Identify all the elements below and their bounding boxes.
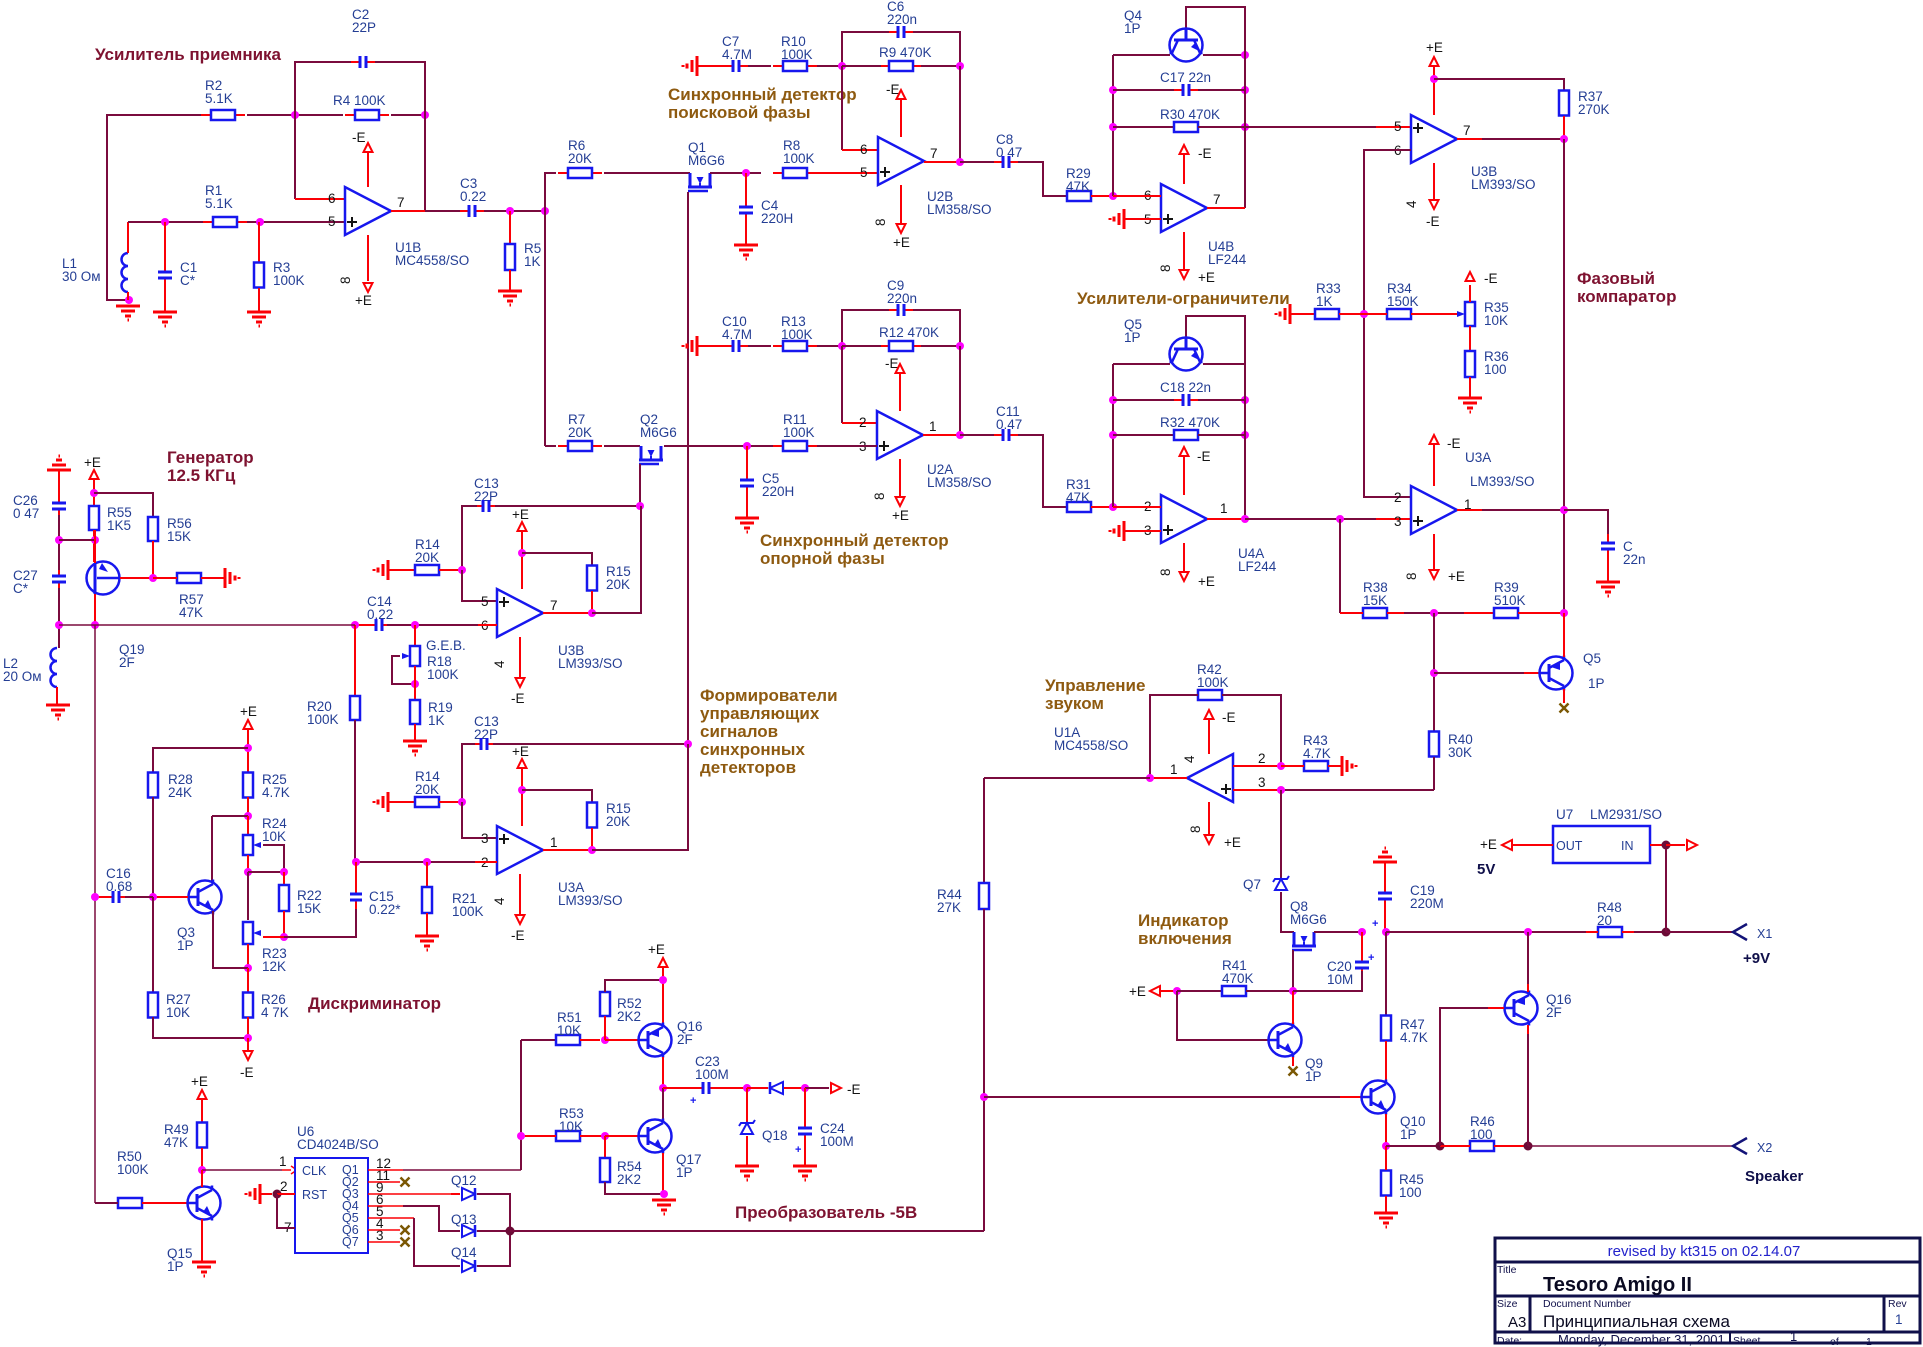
wire wiper node row — [284, 936, 356, 938]
wire R15u bottom — [591, 591, 593, 613]
svg-text:звуком: звуком — [1045, 694, 1104, 713]
wire R48 right a — [1622, 931, 1634, 933]
power +E R41 — [1150, 986, 1160, 996]
svg-text:of: of — [1830, 1336, 1839, 1347]
wire R50 to Q15 — [142, 1202, 188, 1204]
svg-text:2: 2 — [1258, 751, 1266, 766]
resistor R11 — [773, 441, 817, 451]
wire pin3 stub U4A — [1124, 530, 1161, 532]
svg-text:Усилители-ограничители: Усилители-ограничители — [1077, 289, 1290, 308]
wire Q17 base — [605, 1135, 638, 1137]
wire R14u right — [439, 569, 462, 571]
resistor R47 — [1381, 1016, 1391, 1041]
node R12 right — [956, 342, 964, 350]
node Q10e — [1382, 1142, 1390, 1150]
svg-text:Дискриминатор: Дискриминатор — [308, 994, 441, 1013]
wire to R56 — [94, 493, 153, 517]
potentiometer R35 — [1457, 302, 1475, 326]
resistor R49 — [197, 1123, 207, 1148]
capacitor C 22n — [1601, 534, 1615, 558]
svg-text:2: 2 — [280, 1179, 288, 1194]
wire C2 loop right — [371, 62, 425, 115]
node R14l — [458, 798, 466, 806]
power -E U3Bg — [516, 678, 525, 687]
svg-text:0.22: 0.22 — [460, 189, 486, 204]
svg-text:Date:: Date: — [1497, 1335, 1522, 1347]
wire +E stem U3Bg — [521, 531, 523, 589]
svg-text:100K: 100K — [783, 425, 815, 440]
svg-text:Rev: Rev — [1888, 1298, 1907, 1310]
svg-text:включения: включения — [1138, 929, 1232, 948]
capacitor C10 — [724, 340, 748, 352]
svg-text:10K: 10K — [559, 1119, 583, 1134]
svg-text:100K: 100K — [1197, 675, 1229, 690]
capacitor C17 — [1174, 84, 1198, 96]
wire RST to pin7 — [277, 1194, 295, 1228]
zener Q7 — [1273, 876, 1289, 890]
power +E U4B — [1180, 270, 1189, 279]
wire R45 gnd — [1385, 1196, 1387, 1213]
svg-text:опорной фазы: опорной фазы — [760, 549, 885, 568]
resistor R3 — [254, 263, 264, 288]
no-connect Q7 out — [401, 1238, 410, 1247]
wire pin6 drop — [294, 115, 296, 199]
power +E U3Bc — [1430, 57, 1439, 66]
wire R53 right — [580, 1135, 604, 1137]
wire Q5 collector loop — [1186, 316, 1245, 364]
svg-text:100K: 100K — [427, 667, 459, 682]
svg-text:100K: 100K — [781, 47, 813, 62]
resistor R51 — [556, 1035, 580, 1045]
wire pin3 row — [1281, 789, 1434, 791]
svg-text:4.7K: 4.7K — [262, 785, 290, 800]
svg-text:100K: 100K — [783, 151, 815, 166]
wire pin6 stub U4B — [1113, 195, 1161, 197]
svg-text:20K: 20K — [568, 151, 592, 166]
svg-text:Title: Title — [1497, 1264, 1517, 1276]
wire to -E arrow — [805, 1087, 829, 1089]
node Q2 gate — [636, 502, 644, 510]
svg-text:5: 5 — [1394, 119, 1402, 134]
svg-text:20K: 20K — [415, 550, 439, 565]
svg-text:Document Number: Document Number — [1543, 1298, 1632, 1310]
wire pin3 stub comp — [1376, 518, 1411, 520]
node R4/C2 right — [421, 111, 429, 119]
resistor R1 — [203, 217, 247, 227]
svg-text:24K: 24K — [168, 785, 192, 800]
wire RST stub — [277, 1193, 295, 1195]
node U7 IN — [1662, 841, 1671, 850]
wire R15l bottom — [591, 828, 593, 850]
svg-text:-E: -E — [847, 1082, 861, 1097]
power -E U4A — [1180, 447, 1189, 456]
wire gnd to C19 — [1384, 862, 1386, 890]
wire to R15u — [522, 553, 592, 565]
svg-text:+: + — [1372, 918, 1378, 930]
wire C gnd — [1607, 558, 1609, 582]
wire Q12 out — [477, 1194, 510, 1231]
wire R27 to -E row — [153, 1017, 248, 1038]
node R41 left — [1173, 987, 1181, 995]
ground R5 — [498, 291, 522, 305]
node U2A out — [956, 431, 964, 439]
wire U3Bg out — [543, 612, 592, 614]
power input arrow — [1687, 840, 1697, 850]
transistor Q5 — [1170, 338, 1203, 371]
potentiometer R18 — [402, 646, 420, 666]
wire out up to gate — [592, 744, 688, 850]
wire R23 wiper row — [263, 936, 284, 938]
svg-text:30K: 30K — [1448, 745, 1472, 760]
power -E U1B — [364, 143, 373, 152]
wire IN to arrow — [1666, 844, 1685, 846]
ground R3 — [247, 312, 271, 326]
wire C15 to wiper node — [284, 909, 356, 937]
power +E conv — [659, 958, 668, 967]
wire C4 drop — [745, 173, 747, 202]
wire R48 left stub — [1586, 931, 1598, 933]
wire R43 left — [1281, 765, 1304, 767]
transistor Q1 — [688, 173, 712, 191]
wire CLK row — [202, 1169, 282, 1171]
wire U3Bc out b — [1482, 138, 1564, 140]
svg-text:-E: -E — [885, 356, 899, 371]
svg-text:сигналов: сигналов — [700, 722, 778, 741]
resistor R14 lower — [415, 797, 439, 807]
wire pin2 row — [356, 861, 475, 863]
wire Q8 gate — [1292, 950, 1294, 991]
resistor R4 — [345, 110, 389, 120]
svg-text:OUT: OUT — [1556, 839, 1583, 853]
power +E gen — [90, 470, 99, 479]
wire out to C8 — [960, 161, 994, 163]
capacitor C19 — [1378, 889, 1392, 903]
ground C7 — [683, 56, 697, 76]
ground C26 top — [47, 456, 71, 470]
wire C4 gnd — [745, 222, 747, 245]
resistor R46 — [1470, 1141, 1494, 1151]
svg-text:+E: +E — [893, 235, 910, 250]
svg-text:1: 1 — [1220, 501, 1228, 516]
svg-text:150K: 150K — [1387, 294, 1419, 309]
resistor R37 — [1559, 91, 1569, 116]
svg-text:CD4024B/SO: CD4024B/SO — [297, 1137, 379, 1152]
svg-text:управляющих: управляющих — [700, 704, 820, 723]
svg-text:1P: 1P — [1305, 1069, 1322, 1084]
svg-text:+E: +E — [1198, 574, 1215, 589]
node CLK — [198, 1166, 206, 1174]
wire R43 gnd — [1328, 765, 1342, 767]
svg-text:3: 3 — [481, 831, 489, 846]
svg-text:7: 7 — [1463, 123, 1471, 138]
svg-text:+E: +E — [240, 704, 257, 719]
wire gnd-R14l — [388, 801, 415, 803]
wire C16 left — [95, 896, 107, 898]
wire C7-R10 — [748, 65, 771, 67]
ground C4 — [734, 245, 758, 259]
node R53/R54 — [601, 1132, 609, 1140]
svg-text:4: 4 — [1182, 755, 1197, 763]
wire Q1 pin12 stub — [368, 1169, 403, 1171]
wire R54 bottom — [605, 1182, 664, 1194]
wire gnd-RST — [260, 1193, 272, 1195]
resistor R29 — [1067, 191, 1091, 201]
resistor R5 — [505, 244, 515, 270]
resistor R50 — [118, 1198, 142, 1208]
svg-text:A3: A3 — [1508, 1314, 1526, 1331]
svg-text:4.7M: 4.7M — [722, 327, 752, 342]
wire +E stem disc — [247, 729, 249, 772]
svg-text:1K: 1K — [428, 713, 445, 728]
node Q5 base — [1430, 669, 1438, 677]
resistor R52 — [600, 992, 610, 1016]
wire to X2 — [1528, 1145, 1733, 1147]
wire R2-R4 — [247, 114, 343, 116]
wire Q1 gate — [687, 192, 689, 744]
ground L2 — [46, 705, 70, 719]
node C16/R28/R27 — [149, 893, 157, 901]
wire R22 top — [283, 872, 285, 885]
capacitor C4 — [739, 198, 753, 222]
wire C1 drop — [164, 222, 166, 266]
svg-text:10K: 10K — [166, 1005, 190, 1020]
node C23/Q18 — [743, 1084, 751, 1092]
svg-text:0.68: 0.68 — [106, 879, 132, 894]
wire R50 left — [95, 1202, 118, 1204]
wire C17 left — [1113, 89, 1174, 91]
wire Q18 drop — [746, 1088, 748, 1122]
svg-text:4.7K: 4.7K — [1303, 746, 1331, 761]
wire R42 right loop — [1222, 695, 1281, 766]
wire OUT to +E — [1512, 844, 1553, 846]
wire Q13 out — [477, 1230, 510, 1232]
wire R19 gnd — [414, 724, 416, 741]
svg-text:-E: -E — [352, 130, 366, 145]
svg-text:4: 4 — [492, 660, 507, 668]
node C17 right — [1241, 86, 1249, 94]
wire R57 stub2 — [153, 577, 177, 579]
svg-text:R12 470K: R12 470K — [879, 325, 939, 340]
wire R37 bottom — [1563, 116, 1565, 139]
wire R21 gnd — [426, 913, 428, 936]
wire +E stem U1A — [1208, 802, 1210, 835]
resistor R55 — [89, 506, 99, 530]
capacitor C3 — [460, 205, 484, 217]
wire Q16 base — [605, 1039, 638, 1041]
svg-text:1K: 1K — [1316, 294, 1333, 309]
wire R26 bottom — [247, 1017, 249, 1038]
wire U1B out — [391, 210, 425, 212]
resistor R43 — [1304, 761, 1328, 771]
wire pin5 link u — [462, 570, 497, 601]
svg-text:U7: U7 — [1556, 807, 1573, 822]
svg-text:6: 6 — [328, 191, 336, 206]
svg-text:LM393/SO: LM393/SO — [558, 656, 623, 671]
svg-text:-E: -E — [1197, 449, 1211, 464]
wire pin6 stub — [295, 198, 345, 200]
svg-text:Q7: Q7 — [342, 1235, 359, 1249]
svg-text:LM358/SO: LM358/SO — [927, 202, 992, 217]
wire R18 bottom — [414, 666, 416, 684]
svg-text:RST: RST — [302, 1188, 327, 1202]
wire R52 top — [605, 980, 663, 992]
wire right vert U4A — [1244, 316, 1246, 519]
svg-text:22P: 22P — [474, 489, 498, 504]
node C20 top — [1358, 928, 1366, 936]
wire U3Ac out a — [1457, 509, 1482, 511]
wire R39 right — [1518, 612, 1564, 614]
svg-text:100M: 100M — [695, 1067, 729, 1082]
capacitor C27 — [52, 570, 66, 588]
svg-text:10K: 10K — [1484, 313, 1508, 328]
resistor R54 — [600, 1158, 610, 1182]
transistor Q5 comp — [1540, 656, 1573, 691]
power +E U3Bg — [518, 522, 527, 531]
node C1/R1 — [161, 218, 169, 226]
wire R34-R35 — [1411, 313, 1459, 315]
node gen row left — [55, 621, 63, 629]
wire Q4 right — [1203, 54, 1245, 56]
op-amp U3B comparator — [1411, 115, 1457, 163]
wire Q5 left vert — [1112, 364, 1114, 507]
wire pin3 stub — [1233, 789, 1281, 791]
resistor R56 — [148, 517, 158, 541]
svg-text:20K: 20K — [606, 814, 630, 829]
ground RST — [246, 1184, 260, 1204]
wire Q3 pin9 stub — [368, 1193, 451, 1195]
node R14u — [458, 566, 466, 574]
capacitor C5 — [740, 471, 754, 495]
wire -E stem U1A — [1208, 719, 1210, 754]
svg-text:2K2: 2K2 — [617, 1172, 641, 1187]
node R12 left — [838, 342, 846, 350]
wire R47 vert — [1385, 932, 1387, 1015]
wire R46 left stub — [1440, 1145, 1470, 1147]
wire R47 to Q10 — [1385, 1041, 1387, 1081]
wire R38-R39a — [1387, 612, 1404, 614]
wire +E stem R49 — [201, 1099, 203, 1122]
wire R5 gnd — [509, 270, 511, 291]
svg-text:7: 7 — [930, 146, 938, 161]
wire comp out vert — [1563, 139, 1565, 656]
no-connect Q6 out — [401, 1226, 410, 1235]
node R2/R4/C2 — [291, 111, 299, 119]
wire R20 bottom — [354, 720, 356, 862]
svg-text:2: 2 — [1394, 490, 1402, 505]
wire Q16b base stub — [1488, 1007, 1504, 1009]
node RST — [273, 1190, 282, 1199]
wire R14l right — [439, 801, 462, 803]
svg-text:LM393/SO: LM393/SO — [558, 893, 623, 908]
svg-text:+E: +E — [1129, 984, 1146, 999]
svg-text:+E: +E — [1448, 569, 1465, 584]
wire C13u loop — [462, 506, 477, 570]
wire C1 gnd — [164, 287, 166, 312]
wire R7 to Q2 — [604, 445, 640, 447]
node U4A out — [1241, 515, 1249, 523]
node R25/Q3c — [244, 812, 252, 820]
wire gnd-R33 — [1290, 313, 1315, 315]
wire C6 loop — [842, 32, 893, 67]
wire Q7 pin3 stub — [368, 1241, 400, 1243]
wire fb right vert 2 — [959, 346, 961, 435]
wire R41 right — [1246, 990, 1293, 992]
svg-text:Tesoro Amigo II: Tesoro Amigo II — [1543, 1274, 1692, 1296]
svg-text:-E: -E — [511, 691, 525, 706]
wire out to C3 — [425, 210, 462, 212]
wire +E stem U3Bc — [1433, 66, 1435, 115]
node X1/U7 — [1662, 928, 1671, 937]
svg-text:510K: 510K — [1494, 593, 1526, 608]
node diode bus — [506, 1227, 515, 1236]
wire Q3 collector row — [212, 815, 248, 817]
wire Q15 emitter — [201, 1219, 203, 1262]
wire C5 gnd — [746, 495, 748, 518]
wire R35 top — [1469, 285, 1471, 302]
op-amp U4B — [1161, 184, 1207, 232]
wire gen main row — [59, 624, 355, 626]
wire Q10 base stub — [1340, 1096, 1362, 1098]
svg-text:C17 22n: C17 22n — [1160, 70, 1211, 85]
wire C23 right — [718, 1087, 747, 1089]
svg-text:2F: 2F — [119, 655, 135, 670]
wire U1A out — [1150, 777, 1187, 779]
wire R18 wiper — [392, 656, 415, 684]
svg-text:1P: 1P — [1588, 676, 1605, 691]
svg-text:Усилитель приемника: Усилитель приемника — [95, 45, 282, 64]
svg-text:Генератор: Генератор — [167, 448, 254, 467]
svg-text:1P: 1P — [1124, 21, 1141, 36]
ground R21 — [415, 936, 439, 950]
svg-text:10K: 10K — [557, 1023, 581, 1038]
svg-text:R4 100K: R4 100K — [333, 93, 386, 108]
wire R22 bottom — [283, 911, 285, 937]
svg-text:Q5: Q5 — [1583, 651, 1601, 666]
wire C18 right — [1198, 399, 1245, 401]
svg-text:4 7K: 4 7K — [261, 1005, 289, 1020]
wire C5 drop — [746, 446, 748, 475]
svg-text:270K: 270K — [1578, 102, 1610, 117]
wire R10 to node — [817, 65, 842, 67]
ground R33 — [1276, 304, 1290, 324]
resistor R2 — [201, 110, 245, 120]
capacitor C20 — [1355, 958, 1369, 972]
svg-text:100: 100 — [1484, 362, 1507, 377]
svg-text:2F: 2F — [677, 1032, 693, 1047]
wire R26 top — [247, 968, 249, 993]
node U1A out — [1146, 774, 1154, 782]
wire -E stem U1B — [367, 152, 369, 187]
wire pin2 stub U2A — [842, 422, 877, 424]
svg-text:LF244: LF244 — [1238, 559, 1277, 574]
node +E disc — [244, 744, 252, 752]
wire Q5 pin5 stub — [368, 1217, 414, 1219]
svg-text:5: 5 — [481, 594, 489, 609]
svg-text:LM393/SO: LM393/SO — [1470, 474, 1535, 489]
svg-text:-E: -E — [240, 1065, 254, 1080]
svg-text:8: 8 — [873, 218, 888, 226]
wire C20 bottom — [1293, 971, 1362, 991]
capacitor C11 — [994, 429, 1018, 441]
wire zener to Q8 — [1281, 892, 1294, 932]
node R32 left — [1109, 431, 1117, 439]
wire C24 drop — [804, 1088, 806, 1122]
wire R13 to node — [817, 345, 842, 347]
wire R12 left link — [842, 345, 881, 347]
node R22/R23 wiper — [280, 933, 288, 941]
svg-text:20 Ом: 20 Ом — [3, 669, 42, 684]
svg-text:8: 8 — [1404, 572, 1419, 580]
